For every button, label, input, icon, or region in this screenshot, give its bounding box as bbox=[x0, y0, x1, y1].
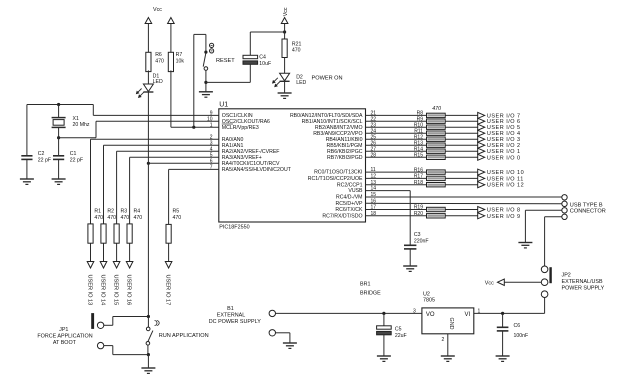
svg-text:C2: C2 bbox=[38, 151, 45, 157]
svg-text:22 pF: 22 pF bbox=[70, 157, 83, 163]
svg-text:R2: R2 bbox=[107, 208, 114, 214]
svg-text:VUSB: VUSB bbox=[348, 188, 363, 194]
svg-text:22 pF: 22 pF bbox=[38, 157, 51, 163]
svg-text:RC6/TX/CK: RC6/TX/CK bbox=[335, 207, 363, 213]
svg-text:470: 470 bbox=[292, 48, 301, 54]
svg-text:USER I/O 1: USER I/O 1 bbox=[487, 149, 521, 155]
svg-text:C6: C6 bbox=[514, 323, 521, 329]
svg-text:R6: R6 bbox=[155, 52, 162, 58]
svg-text:R16: R16 bbox=[414, 167, 423, 173]
svg-text:RA5/AN4/SS/HLVDIN/C2OUT: RA5/AN4/SS/HLVDIN/C2OUT bbox=[222, 167, 292, 173]
svg-text:470: 470 bbox=[107, 215, 116, 221]
svg-text:10uF: 10uF bbox=[259, 61, 271, 67]
svg-text:PIC18F2550: PIC18F2550 bbox=[219, 224, 249, 230]
svg-text:470: 470 bbox=[134, 215, 143, 221]
svg-text:USER I/O 10: USER I/O 10 bbox=[487, 170, 524, 176]
svg-text:USER I/O 9: USER I/O 9 bbox=[487, 214, 521, 220]
svg-text:GND: GND bbox=[448, 318, 454, 330]
svg-text:EXTERNAL: EXTERNAL bbox=[217, 313, 245, 319]
svg-text:R5: R5 bbox=[173, 208, 180, 214]
svg-text:100nF: 100nF bbox=[514, 333, 529, 339]
svg-text:RC5/D+/VP: RC5/D+/VP bbox=[336, 201, 363, 207]
svg-text:AT BOOT: AT BOOT bbox=[53, 340, 77, 346]
svg-text:C1: C1 bbox=[70, 151, 77, 157]
svg-text:10k: 10k bbox=[176, 59, 185, 65]
svg-text:JP2: JP2 bbox=[562, 273, 571, 279]
svg-text:EXTERNAL/USB: EXTERNAL/USB bbox=[562, 279, 603, 285]
svg-text:RESET: RESET bbox=[216, 58, 235, 64]
svg-text:R14: R14 bbox=[414, 146, 423, 152]
svg-text:POWER ON: POWER ON bbox=[312, 76, 343, 82]
svg-text:U2: U2 bbox=[423, 291, 430, 297]
svg-text:C5: C5 bbox=[395, 327, 402, 333]
svg-text:LED: LED bbox=[153, 79, 163, 85]
svg-text:BR1: BR1 bbox=[360, 281, 371, 287]
svg-text:R4: R4 bbox=[134, 208, 141, 214]
svg-text:Vcc: Vcc bbox=[153, 7, 162, 13]
svg-text:U1: U1 bbox=[219, 102, 228, 109]
svg-text:BRIDGE: BRIDGE bbox=[360, 291, 381, 297]
svg-text:R17: R17 bbox=[414, 174, 423, 180]
svg-text:20 Mhz: 20 Mhz bbox=[73, 122, 90, 128]
svg-text:USER I/O 12: USER I/O 12 bbox=[487, 183, 524, 189]
svg-text:R19: R19 bbox=[414, 205, 423, 211]
svg-text:RB7/KBI3/PGD: RB7/KBI3/PGD bbox=[327, 155, 363, 161]
svg-text:RC0/T1OSO/T13CKI: RC0/T1OSO/T13CKI bbox=[314, 170, 362, 176]
svg-text:USER IO 15: USER IO 15 bbox=[113, 275, 119, 306]
svg-text:22uF: 22uF bbox=[395, 333, 407, 339]
svg-text:B1: B1 bbox=[227, 306, 234, 312]
svg-text:R20: R20 bbox=[414, 211, 423, 217]
svg-text:LED: LED bbox=[296, 80, 306, 86]
svg-text:USER IO 13: USER IO 13 bbox=[87, 275, 93, 306]
svg-text:R18: R18 bbox=[414, 180, 423, 186]
svg-text:USER IO 17: USER IO 17 bbox=[165, 275, 171, 306]
svg-text:R1: R1 bbox=[94, 208, 101, 214]
svg-text:R21: R21 bbox=[292, 41, 302, 47]
svg-text:MCLR/Vpp/RE3: MCLR/Vpp/RE3 bbox=[222, 125, 259, 131]
svg-text:RA2/AN2/VREF-/CVREF: RA2/AN2/VREF-/CVREF bbox=[222, 149, 280, 155]
svg-text:USER IO 16: USER IO 16 bbox=[126, 275, 132, 306]
svg-text:JP1: JP1 bbox=[59, 327, 68, 333]
svg-text:2: 2 bbox=[442, 337, 445, 343]
svg-text:220nF: 220nF bbox=[414, 238, 429, 244]
svg-text:C4: C4 bbox=[259, 55, 266, 61]
svg-text:1: 1 bbox=[478, 308, 481, 314]
svg-text:X1: X1 bbox=[73, 116, 79, 122]
svg-text:R3: R3 bbox=[121, 208, 128, 214]
svg-text:RB6/KBI2/PGC: RB6/KBI2/PGC bbox=[327, 149, 363, 155]
svg-text:R15: R15 bbox=[414, 153, 423, 159]
svg-text:470: 470 bbox=[173, 215, 182, 221]
svg-text:POWER SUPPLY: POWER SUPPLY bbox=[562, 285, 605, 291]
svg-text:USER I/O 8: USER I/O 8 bbox=[487, 208, 521, 214]
svg-text:USB TYPE B: USB TYPE B bbox=[570, 202, 603, 208]
svg-text:RUN APPLICATION: RUN APPLICATION bbox=[159, 333, 209, 339]
svg-text:RC7/RX/DT/SDO: RC7/RX/DT/SDO bbox=[322, 213, 362, 219]
svg-text:R7: R7 bbox=[176, 52, 183, 58]
svg-text:RC4/D-/VM: RC4/D-/VM bbox=[336, 195, 363, 201]
svg-text:470: 470 bbox=[121, 215, 130, 221]
svg-text:VO: VO bbox=[426, 312, 435, 318]
svg-text:470: 470 bbox=[432, 106, 441, 112]
svg-text:RC1/T1OSI/CCP2/UOE: RC1/T1OSI/CCP2/UOE bbox=[308, 176, 363, 182]
svg-text:DC POWER SUPPLY: DC POWER SUPPLY bbox=[209, 319, 261, 325]
svg-text:RA4/T0CKI/C1OUT/RCV: RA4/T0CKI/C1OUT/RCV bbox=[222, 161, 280, 167]
svg-text:470: 470 bbox=[94, 215, 103, 221]
svg-text:USER IO 14: USER IO 14 bbox=[100, 275, 106, 306]
svg-text:VI: VI bbox=[465, 312, 471, 318]
svg-text:470: 470 bbox=[155, 59, 164, 65]
svg-text:3: 3 bbox=[413, 308, 416, 314]
svg-text:USER I/O 11: USER I/O 11 bbox=[487, 176, 524, 182]
svg-text:C3: C3 bbox=[414, 232, 421, 238]
svg-text:7805: 7805 bbox=[423, 298, 435, 304]
svg-text:USER I/O 0: USER I/O 0 bbox=[487, 155, 521, 161]
svg-text:Vcc: Vcc bbox=[485, 280, 494, 286]
svg-text:CONNECTOR: CONNECTOR bbox=[570, 209, 606, 215]
svg-text:FORCE APPLICATION: FORCE APPLICATION bbox=[37, 333, 92, 339]
svg-text:Vcc: Vcc bbox=[283, 7, 289, 16]
